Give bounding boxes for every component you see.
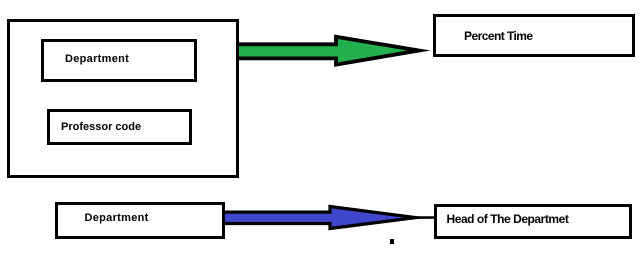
box: Head of The Departmet: [434, 204, 632, 239]
inner box: Department: [41, 39, 197, 82]
label: Percent Time: [464, 31, 533, 42]
outer entity rectangle (Department group): [7, 19, 239, 178]
label: Department (top): [65, 54, 129, 65]
inner box: Professor code: [47, 109, 192, 145]
green arrow (Department entity to Percent Time attribute): [239, 37, 419, 65]
box: Percent Time: [433, 14, 635, 57]
label: Professor code: [61, 122, 141, 133]
box: Department (bottom): [55, 202, 225, 239]
connector line from blue arrow tip to Head box: [400, 216, 436, 219]
blue arrow (Department to Head of The Departmet): [225, 207, 416, 229]
small dot mark: [390, 239, 394, 244]
label: Department (bottom): [85, 213, 149, 224]
label: Head of The Departmet: [447, 214, 569, 225]
